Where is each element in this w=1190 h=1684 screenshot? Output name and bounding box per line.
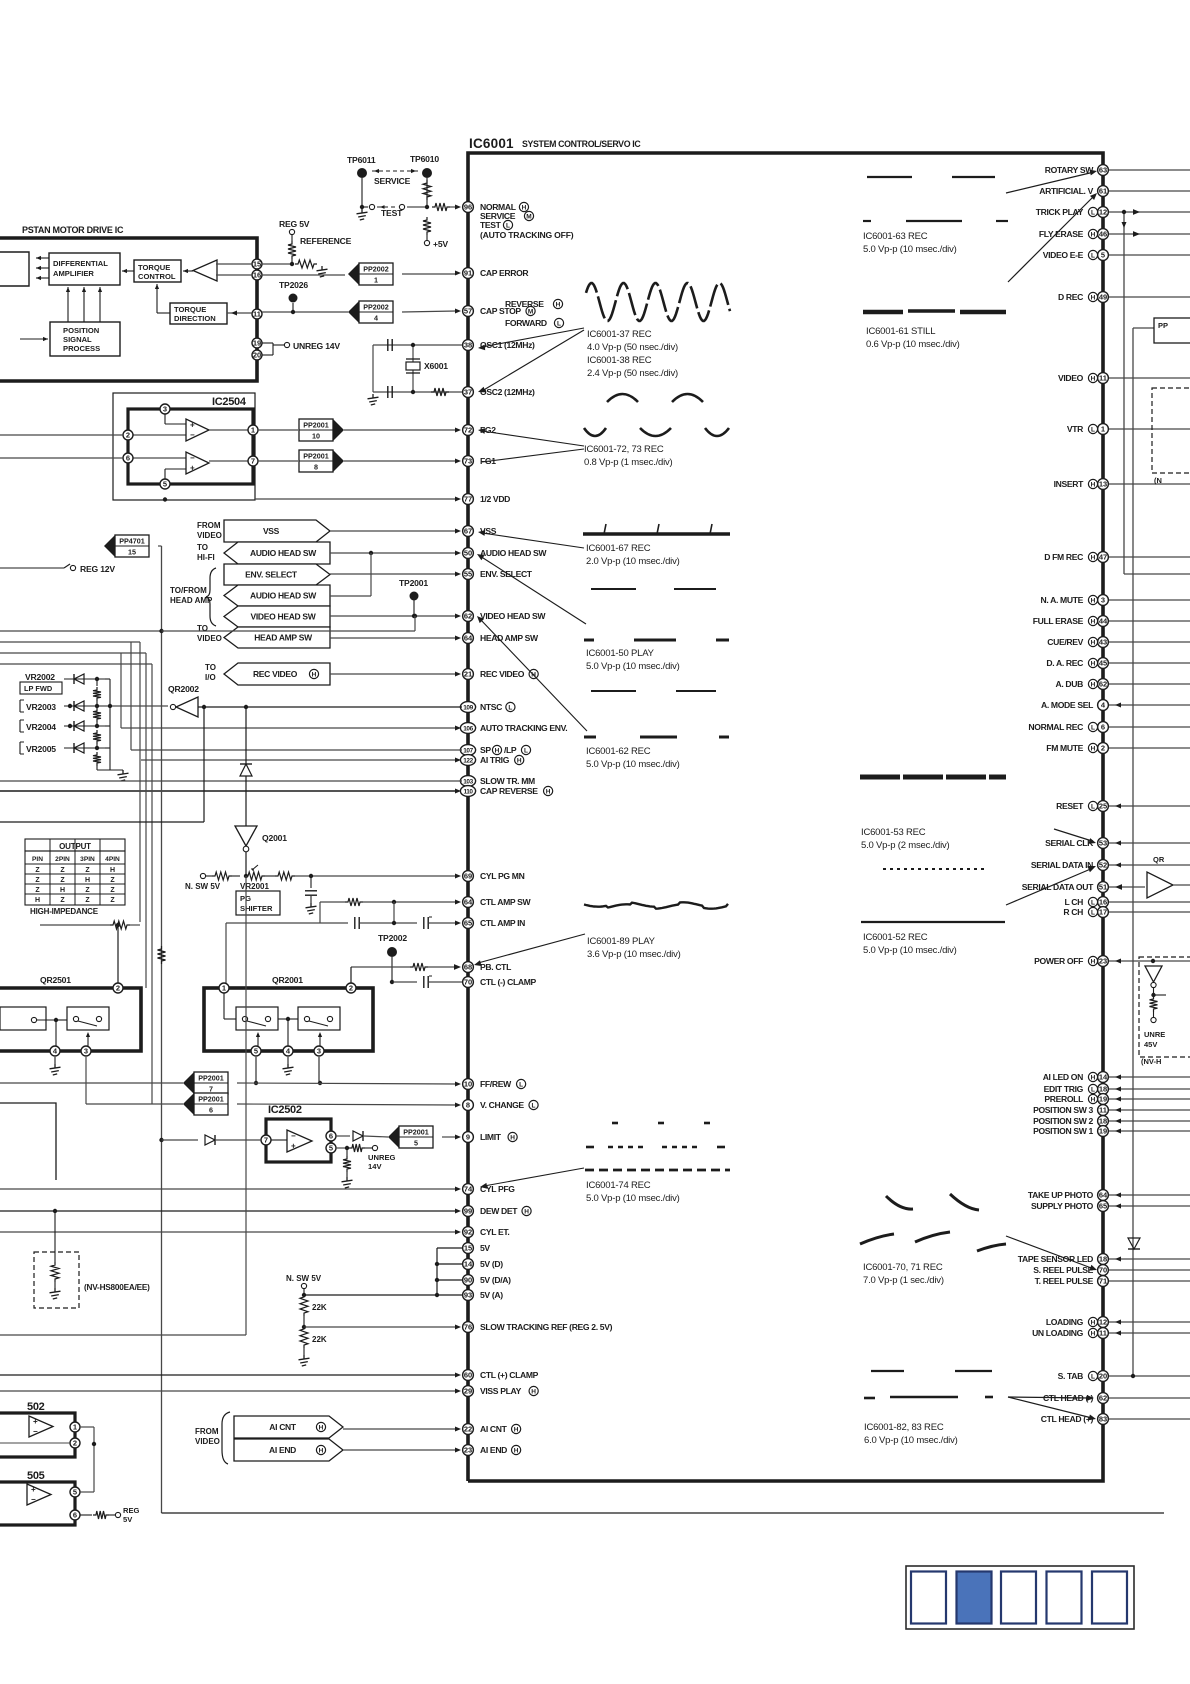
wire resistor to pin 96 — [432, 203, 461, 211]
svg-text:6: 6 — [73, 1511, 77, 1520]
svg-text:H: H — [110, 867, 115, 874]
svg-text:Z: Z — [35, 867, 40, 874]
pin 53 SERIAL CLK (IC6001 right) — [1045, 838, 1190, 849]
svg-text:H: H — [60, 887, 65, 894]
svg-text:TAPE SENSOR LED: TAPE SENSOR LED — [1018, 1254, 1093, 1264]
svg-text:REC VIDEO: REC VIDEO — [253, 669, 298, 679]
svg-text:VIDEO: VIDEO — [1058, 373, 1084, 383]
wire outer box to pin 77 1/2 VDD — [163, 497, 461, 502]
pin 3 QR2501 — [81, 1046, 91, 1056]
svg-text:20: 20 — [253, 351, 261, 360]
pin 6 IC2502 — [326, 1131, 336, 1141]
wire TP6011 down to test row — [360, 178, 368, 209]
op-amp U-IC6001 SYSTEM CONTROL/SERVO IC box — [468, 153, 1103, 1481]
svg-text:T. REEL PULSE: T. REEL PULSE — [1035, 1276, 1094, 1286]
svg-text:A. MODE SEL: A. MODE SEL — [1041, 700, 1093, 710]
svg-text:11: 11 — [253, 310, 261, 319]
svg-text:S. REEL PULSE: S. REEL PULSE — [1033, 1265, 1093, 1275]
node ENV.SELECT flag — [224, 564, 461, 585]
svg-text:IC6001-50 PLAY: IC6001-50 PLAY — [586, 648, 655, 659]
svg-text:29: 29 — [464, 1387, 472, 1396]
pin 18 TAPE SENSOR LED (IC6001 right) — [1018, 1254, 1190, 1265]
node reel pulse slashes — [860, 1194, 1006, 1251]
svg-text:IC6001-61 STILL: IC6001-61 STILL — [866, 326, 935, 337]
svg-text:47: 47 — [1099, 553, 1107, 562]
svg-text:L: L — [1091, 1087, 1095, 1094]
label IC6001-62 text — [586, 746, 680, 770]
svg-text:93: 93 — [464, 1291, 472, 1300]
wire VR bus vertical — [97, 679, 123, 770]
svg-text:H: H — [35, 897, 40, 904]
pin 52 SERIAL DATA IN (IC6001 right) — [1031, 860, 1190, 871]
svg-text:FM MUTE: FM MUTE — [1046, 743, 1083, 753]
svg-text:15: 15 — [464, 1244, 472, 1253]
svg-text:L CH: L CH — [1065, 897, 1084, 907]
svg-text:99: 99 — [464, 1207, 472, 1216]
svg-text:−: − — [190, 453, 195, 462]
svg-text:(NV-HS800EA/EE): (NV-HS800EA/EE) — [84, 1283, 150, 1292]
svg-text:5V (D): 5V (D) — [480, 1259, 503, 1269]
svg-text:UN LOADING: UN LOADING — [1032, 1328, 1084, 1338]
svg-text:92: 92 — [464, 1228, 472, 1237]
pin 67 VSS (IC6001 left) — [463, 526, 497, 537]
svg-text:PP2001: PP2001 — [403, 1128, 429, 1137]
svg-text:Z: Z — [110, 877, 115, 884]
svg-text:TRICK PLAY: TRICK PLAY — [1036, 207, 1084, 217]
svg-text:PROCESS: PROCESS — [63, 344, 100, 353]
svg-text:IC6001-82, 83 REC: IC6001-82, 83 REC — [864, 1422, 944, 1433]
node AUDIO HEAD SW flag (head amp) — [224, 585, 330, 606]
svg-text:IC6001-37 REC: IC6001-37 REC — [587, 329, 652, 340]
wire QR2501 pin2 up — [117, 925, 119, 983]
svg-text:Z: Z — [60, 897, 65, 904]
svg-text:14: 14 — [464, 1260, 473, 1269]
svg-text:H: H — [531, 1389, 536, 1396]
transistor QR amp right edge — [1147, 855, 1190, 898]
wire QR2002 down verticals — [0, 707, 204, 822]
svg-text:POSITION SW 1: POSITION SW 1 — [1033, 1126, 1093, 1136]
svg-text:N. SW 5V: N. SW 5V — [286, 1274, 322, 1283]
svg-text:5.0 Vp-p (10 msec./div): 5.0 Vp-p (10 msec./div) — [586, 1193, 680, 1204]
wire QR2001 switch arrows — [256, 1032, 322, 1046]
pin 25 RESET (IC6001 right) — [1056, 801, 1190, 812]
svg-text:VIDEO: VIDEO — [197, 531, 222, 540]
svg-text:VIDEO: VIDEO — [197, 634, 222, 643]
svg-text:+: + — [31, 1485, 36, 1494]
svg-text:13: 13 — [1099, 480, 1107, 489]
svg-text:D REC: D REC — [1058, 292, 1083, 302]
test point TP2026 — [279, 280, 308, 312]
svg-text:3PIN: 3PIN — [80, 856, 95, 863]
svg-text:5: 5 — [73, 1488, 77, 1497]
svg-text:6: 6 — [126, 454, 130, 463]
node dash row y1397 — [864, 1397, 993, 1398]
pin 38 OSC1 (12MHz) (IC6001 left) — [463, 340, 535, 351]
svg-text:11: 11 — [1099, 374, 1107, 383]
svg-text:AI END: AI END — [480, 1445, 507, 1455]
node page indicator squares — [906, 1566, 1134, 1629]
svg-text:AUDIO HEAD SW: AUDIO HEAD SW — [250, 591, 317, 601]
pin 16 capstan — [252, 270, 262, 280]
resistor on x161 line — [158, 946, 166, 964]
pin 5 QR2001 — [251, 1046, 261, 1056]
junction dots x161 — [159, 629, 163, 1142]
svg-text:PP2001: PP2001 — [198, 1074, 224, 1083]
svg-text:−: − — [33, 1427, 38, 1436]
svg-text:AI CNT: AI CNT — [269, 1422, 297, 1432]
label TO/FROM HEAD AMP brace — [170, 568, 216, 626]
pin 65 SUPPLY PHOTO (IC6001 right) — [1031, 1201, 1190, 1212]
label pin57 reverse/forward — [505, 299, 564, 328]
test point TP6010 — [410, 154, 439, 178]
svg-text:7: 7 — [264, 1136, 268, 1145]
svg-text:VISS PLAY: VISS PLAY — [480, 1386, 522, 1396]
transistor QR2002 — [168, 684, 199, 717]
svg-text:PREROLL: PREROLL — [1044, 1094, 1083, 1104]
pin 11 capstan — [252, 309, 262, 319]
svg-text:H: H — [1091, 682, 1096, 689]
svg-text:L: L — [1091, 427, 1095, 434]
node dashed row y1170 — [585, 1169, 730, 1172]
pin 63 ROTARY SW (IC6001 right) — [1045, 165, 1190, 176]
svg-text:L: L — [1091, 1374, 1095, 1381]
flag PP2001 7 — [183, 1072, 228, 1094]
op-amp IC2504 B — [186, 452, 209, 474]
svg-text:X6001: X6001 — [424, 361, 448, 371]
svg-text:FULL ERASE: FULL ERASE — [1033, 616, 1084, 626]
svg-text:OSC2 (12MHz): OSC2 (12MHz) — [480, 387, 535, 397]
svg-text:5: 5 — [1101, 251, 1105, 260]
svg-text:L: L — [1091, 900, 1095, 907]
svg-text:PSTAN MOTOR DRIVE IC: PSTAN MOTOR DRIVE IC — [22, 225, 124, 235]
svg-text:8: 8 — [466, 1101, 470, 1110]
wire into position signal process — [20, 337, 48, 341]
svg-text:REG: REG — [123, 1506, 140, 1515]
svg-text:L: L — [1091, 253, 1095, 260]
test point TP2002 — [378, 933, 407, 984]
wire QR2001 pin1 wiring — [224, 993, 298, 1046]
svg-text:QR: QR — [1153, 855, 1165, 864]
svg-text:6: 6 — [329, 1132, 333, 1141]
pin 18 POSITION SW 2 (IC6001 right) — [1033, 1116, 1190, 1127]
svg-text:ARTIFICIAL. V: ARTIFICIAL. V — [1039, 186, 1093, 196]
pin 16 L CH (IC6001 right) — [1065, 897, 1190, 908]
svg-text:IC6001-52 REC: IC6001-52 REC — [863, 932, 928, 943]
svg-text:77: 77 — [464, 495, 472, 504]
svg-text:CONTROL: CONTROL — [138, 272, 176, 281]
pin 4 QR2501 — [50, 1046, 60, 1056]
pin 110 CAP REVERSE (IC6001 left) — [460, 786, 552, 797]
node AI END flag — [234, 1439, 461, 1461]
wire arrow to FG2 pin72 — [478, 428, 584, 446]
wire torque-control to diff-amp — [122, 270, 134, 272]
svg-text:+: + — [291, 1142, 296, 1151]
wire PP4701 vertical x161 long — [161, 546, 163, 1513]
pin 49 D REC (IC6001 right) — [1058, 292, 1190, 303]
svg-text:VIDEO: VIDEO — [195, 1437, 220, 1446]
svg-text:5V: 5V — [123, 1515, 133, 1524]
wire CTL(+)CLAMP to pin 60 — [0, 1373, 461, 1378]
svg-text:1: 1 — [73, 1423, 77, 1432]
svg-text:+: + — [190, 420, 195, 429]
pin 5 IC2504 — [160, 469, 186, 489]
svg-text:POSITION SW 2: POSITION SW 2 — [1033, 1116, 1093, 1126]
wire pins 19-20 to UNREG 14V — [262, 341, 340, 355]
diode right bus — [1128, 1238, 1140, 1249]
svg-text:POWER OFF: POWER OFF — [1034, 956, 1083, 966]
svg-text:43: 43 — [1099, 638, 1107, 647]
pin 62 A. DUB (IC6001 right) — [1056, 679, 1190, 690]
svg-text:A. DUB: A. DUB — [1056, 679, 1084, 689]
svg-text:TO: TO — [205, 663, 216, 672]
svg-text:50: 50 — [464, 549, 472, 558]
svg-text:51: 51 — [1099, 883, 1107, 892]
svg-text:0.8 Vp-p (1 msec./div): 0.8 Vp-p (1 msec./div) — [584, 457, 673, 468]
svg-text:REVERSE: REVERSE — [505, 299, 544, 309]
svg-text:109: 109 — [463, 704, 473, 711]
svg-text:SLOW TR. MM: SLOW TR. MM — [480, 776, 535, 786]
svg-text:D FM REC: D FM REC — [1044, 552, 1083, 562]
svg-text:64: 64 — [464, 898, 473, 907]
svg-text:H: H — [1091, 1331, 1096, 1338]
svg-text:2PIN: 2PIN — [55, 856, 70, 863]
node underline y922 — [861, 921, 1005, 923]
svg-text:15: 15 — [128, 548, 136, 557]
svg-text:12: 12 — [1099, 208, 1107, 217]
svg-text:I/O: I/O — [205, 673, 216, 682]
svg-text:INSERT: INSERT — [1054, 479, 1085, 489]
pin 6 IC-505 — [70, 1510, 80, 1520]
op-amp IC-505 box — [0, 1470, 75, 1525]
pin 70 CTL (-) CLAMP (IC6001 left) — [463, 977, 537, 988]
node PG SHIFTER box — [236, 891, 280, 915]
svg-text:HEAD AMP SW: HEAD AMP SW — [254, 633, 313, 643]
svg-text:L: L — [506, 223, 510, 230]
svg-text:HEAD AMP SW: HEAD AMP SW — [480, 633, 539, 643]
svg-text:21: 21 — [464, 670, 472, 679]
svg-text:FLY ERASE: FLY ERASE — [1039, 229, 1084, 239]
node UNREG 14V stub IC2502 — [336, 1144, 396, 1177]
svg-text:H: H — [1091, 598, 1096, 605]
flag PP2002 4 — [348, 301, 393, 323]
wire CAP REVERSE to pin 10 — [0, 789, 461, 794]
pin 47 D FM REC (IC6001 right) — [1044, 552, 1190, 563]
wire to pin 76 slow tracking — [304, 1325, 461, 1330]
pin 4 A. MODE SEL (IC6001 right) — [1041, 700, 1190, 711]
svg-text:L: L — [1091, 804, 1095, 811]
label IC6001-70 71 text — [863, 1262, 944, 1286]
pin 7 IC2504 — [209, 456, 258, 466]
pin 3 QR2001 — [314, 1046, 324, 1056]
svg-text:H: H — [514, 1427, 519, 1434]
resistor 22K lower — [299, 1326, 327, 1366]
node switch QR2001 A — [236, 1007, 278, 1030]
svg-text:19: 19 — [1099, 1127, 1107, 1136]
node REG 5V stub 505 — [80, 1506, 140, 1524]
node AUDIO HEAD SW flag (to hi-fi) — [197, 542, 461, 564]
pin 14 AI LED ON (IC6001 right) — [1043, 1072, 1190, 1083]
svg-text:1: 1 — [251, 426, 255, 435]
svg-text:VR2004: VR2004 — [26, 722, 56, 732]
svg-text:122: 122 — [463, 757, 473, 764]
wire SLOW TR to pin 03 — [0, 780, 462, 782]
pin 5 VIDEO E-E (IC6001 right) — [1043, 250, 1190, 261]
svg-text:17: 17 — [1099, 908, 1107, 917]
pin 17 R CH (IC6001 right) — [1063, 907, 1190, 918]
ground IC2502 resistor — [342, 1177, 353, 1188]
svg-text:PP2001: PP2001 — [303, 421, 329, 430]
ground below TP6011 — [357, 209, 368, 220]
pin 51 SERIAL DATA OUT (IC6001 right) — [1022, 882, 1145, 893]
svg-text:VIDEO HEAD SW: VIDEO HEAD SW — [480, 611, 546, 621]
test point TP2001 — [399, 578, 428, 618]
op-amp position signal process block — [50, 322, 120, 356]
svg-text:ENV. SELECT: ENV. SELECT — [245, 570, 298, 580]
svg-text:L: L — [557, 321, 561, 328]
resistor VR2004 trim — [93, 730, 101, 750]
node dashed box right upper — [1152, 388, 1190, 485]
svg-text:107: 107 — [463, 747, 473, 754]
transistor QR2001 box — [204, 975, 373, 1051]
svg-text:REC VIDEO: REC VIDEO — [480, 669, 525, 679]
diode into IC2502 pin7 — [162, 1135, 262, 1145]
svg-text:TO: TO — [197, 543, 208, 552]
svg-text:37: 37 — [464, 388, 472, 397]
svg-text:QR2001: QR2001 — [272, 975, 303, 985]
svg-text:103: 103 — [463, 778, 473, 785]
node VR2003 label — [20, 700, 56, 712]
node switch QR2501 — [67, 1007, 109, 1030]
wire arrow to pin 62 — [477, 616, 587, 731]
svg-text:4.0 Vp-p (50 nsec./div): 4.0 Vp-p (50 nsec./div) — [587, 342, 678, 353]
wire arrow to pin 50 — [477, 554, 586, 624]
svg-text:TO/FROM: TO/FROM — [170, 586, 207, 595]
svg-text:PP2002: PP2002 — [363, 265, 389, 274]
pin 96 NORMAL (IC6001 left) — [463, 202, 529, 213]
svg-text:1/2 VDD: 1/2 VDD — [480, 494, 510, 504]
wire position-process arrows up — [66, 287, 102, 322]
svg-text:TORQUE: TORQUE — [174, 305, 206, 314]
svg-text:PP2002: PP2002 — [363, 303, 389, 312]
svg-text:SERIAL DATA IN: SERIAL DATA IN — [1031, 860, 1093, 870]
wire pins15-16 to triangle — [216, 264, 345, 275]
node REG 5V reference — [279, 219, 352, 277]
flag PP2001 10 — [299, 419, 344, 441]
wire 502 pin1 to 505 pin5 — [80, 1427, 96, 1492]
svg-text:H: H — [495, 748, 500, 755]
pin 20 S. TAB (IC6001 right) — [1058, 1371, 1190, 1382]
svg-text:49: 49 — [1099, 293, 1107, 302]
op-amp IC2504 A — [186, 419, 209, 441]
pin 21 REC VIDEO (IC6001 left) — [463, 669, 539, 680]
svg-text:H: H — [510, 1135, 515, 1142]
wire video-head junction vertical — [162, 614, 418, 631]
pin 11 VIDEO (IC6001 right) — [1058, 373, 1190, 384]
svg-text:H: H — [319, 1425, 324, 1432]
svg-text:H: H — [1091, 1075, 1096, 1082]
svg-text:106: 106 — [463, 725, 473, 732]
svg-text:CTL HEAD (+): CTL HEAD (+) — [1041, 1414, 1094, 1424]
pin 99 DEW DET (IC6001 left) — [463, 1206, 532, 1217]
svg-text:(AUTO TRACKING OFF): (AUTO TRACKING OFF) — [480, 230, 574, 240]
pin 45 D. A. REC (IC6001 right) — [1046, 658, 1190, 669]
diode D-VR2004 row — [64, 721, 105, 731]
flag PP4701 15 — [104, 535, 149, 557]
pin 3 IC2504 — [160, 404, 186, 424]
svg-text:IC6001-70, 71 REC: IC6001-70, 71 REC — [863, 1262, 943, 1273]
wire CTL(-)CLAMP line pin 70 — [393, 976, 462, 988]
node dash row y1371 — [871, 1370, 992, 1372]
svg-text:TP2026: TP2026 — [279, 280, 308, 290]
svg-text:OSC1 (12MHz): OSC1 (12MHz) — [480, 340, 535, 350]
pin 61 ARTIFICIAL. V (IC6001 right) — [1039, 186, 1190, 197]
svg-text:UNRE: UNRE — [1144, 1030, 1165, 1039]
wire vertical bus x1124 — [1122, 210, 1190, 574]
svg-text:H: H — [319, 1448, 324, 1455]
pin 65 CTL AMP IN (IC6001 left) — [463, 918, 526, 929]
svg-text:H: H — [1091, 1320, 1096, 1327]
svg-text:60: 60 — [464, 1371, 472, 1380]
svg-text:−: − — [190, 431, 195, 440]
svg-text:52: 52 — [1099, 861, 1107, 870]
svg-text:VIDEO E-E: VIDEO E-E — [1043, 250, 1084, 260]
svg-text:H: H — [517, 758, 522, 765]
pin 6 NORMAL REC (IC6001 right) — [1028, 722, 1190, 733]
pin 8 V. CHANGE (IC6001 left) — [463, 1100, 539, 1111]
svg-text:62: 62 — [1099, 680, 1107, 689]
pin 1 QR2001 — [219, 983, 229, 993]
pin 73 FG1 (IC6001 left) — [463, 456, 497, 467]
op-amp differential amplifier block — [49, 253, 120, 285]
pin 19 PREROLL (IC6001 right) — [1044, 1094, 1190, 1105]
svg-text:(NV-H: (NV-H — [1141, 1057, 1161, 1066]
svg-text:IC2504: IC2504 — [212, 396, 247, 408]
label IC6001 title — [469, 136, 641, 151]
resistor VR2003 trim — [93, 708, 101, 728]
wire PB CTL line pin 68 — [351, 963, 461, 971]
svg-text:NORMAL REC: NORMAL REC — [1028, 722, 1083, 732]
svg-text:5.0 Vp-p (10 msec./div): 5.0 Vp-p (10 msec./div) — [863, 945, 957, 956]
svg-text:70: 70 — [1099, 1266, 1107, 1275]
pin 15 5V (IC6001 left) — [463, 1243, 491, 1254]
label IC6001-37 REC text — [587, 329, 678, 379]
node dash row IC6001-50 — [584, 639, 729, 642]
op-amp IC2502 box — [266, 1104, 331, 1162]
svg-text:Z: Z — [85, 867, 90, 874]
svg-text:TEST: TEST — [381, 208, 403, 218]
wire flag to pin 73 FG1 — [344, 459, 461, 464]
pin 2 IC-502 — [0, 1438, 80, 1448]
svg-text:IC2502: IC2502 — [268, 1104, 302, 1116]
pin 3 N. A. MUTE (IC6001 right) — [1041, 595, 1190, 606]
svg-text:M: M — [528, 309, 533, 316]
svg-text:7: 7 — [209, 1085, 213, 1094]
diode after IC2502 pin6 — [336, 1131, 388, 1141]
node waveform FG arcs IC6001-72 — [584, 394, 729, 436]
svg-text:9: 9 — [466, 1133, 470, 1142]
svg-text:−: − — [291, 1131, 296, 1140]
wire audio-head-sw junction vertical — [330, 551, 373, 596]
svg-text:5V: 5V — [480, 1243, 490, 1253]
svg-text:AMPLIFIER: AMPLIFIER — [53, 269, 94, 278]
wire IC2504 pin6 from left edge — [0, 457, 123, 459]
pin 70 S. REEL PULSE (IC6001 right) — [1033, 1265, 1190, 1276]
svg-text:CUE/REV: CUE/REV — [1047, 637, 1083, 647]
wire fork arrows CTL HEAD — [1008, 1395, 1096, 1420]
svg-text:110: 110 — [463, 788, 473, 795]
pin 55 ENV. SELECT (IC6001 left) — [463, 569, 533, 580]
svg-text:EDIT TRIG: EDIT TRIG — [1044, 1084, 1084, 1094]
